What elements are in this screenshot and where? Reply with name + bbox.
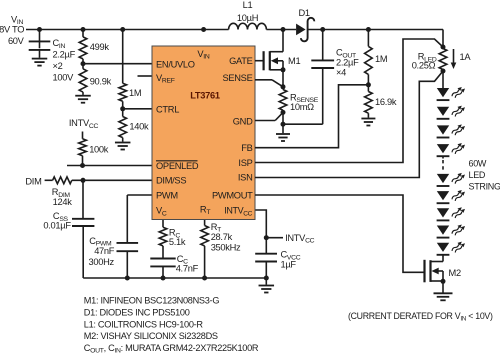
svg-text:350kHz: 350kHz <box>211 242 241 252</box>
svg-text:CTRL: CTRL <box>156 104 179 114</box>
svg-text:SENSE: SENSE <box>222 73 252 83</box>
svg-text:140k: 140k <box>129 121 149 131</box>
svg-text:499k: 499k <box>90 42 110 52</box>
svg-text:100V: 100V <box>53 72 75 82</box>
svg-text:L1: COILTRONICS HC9-100-R: L1: COILTRONICS HC9-100-R <box>84 319 204 329</box>
svg-text:124k: 124k <box>53 197 73 207</box>
svg-text:LED: LED <box>469 170 486 180</box>
svg-text:16.9k: 16.9k <box>375 97 397 107</box>
svg-text:(CURRENT DERATED FOR VIN < 10V: (CURRENT DERATED FOR VIN < 10V) <box>348 311 493 323</box>
svg-text:28.7k: 28.7k <box>211 232 233 242</box>
svg-text:300Hz: 300Hz <box>89 257 115 267</box>
svg-text:8V TO: 8V TO <box>0 24 24 34</box>
svg-text:PWM: PWM <box>156 190 178 200</box>
svg-text:L1: L1 <box>243 0 253 10</box>
svg-text:1M: 1M <box>129 88 141 98</box>
svg-text:100k: 100k <box>89 144 109 154</box>
svg-text:1A: 1A <box>460 52 472 62</box>
svg-text:10µH: 10µH <box>237 13 258 23</box>
svg-text:×4: ×4 <box>336 68 346 78</box>
svg-text:0.25Ω: 0.25Ω <box>412 61 436 71</box>
svg-text:ISN: ISN <box>238 173 253 183</box>
svg-text:M1: INFINEON BSC123N08NS3-G: M1: INFINEON BSC123N08NS3-G <box>84 296 220 306</box>
svg-text:90.9k: 90.9k <box>90 77 112 87</box>
svg-text:1µF: 1µF <box>281 260 297 270</box>
svg-text:M1: M1 <box>288 56 300 66</box>
svg-text:FB: FB <box>241 143 252 153</box>
svg-text:4.7nF: 4.7nF <box>176 263 199 273</box>
svg-text:GND: GND <box>233 116 253 126</box>
svg-text:OPENLED: OPENLED <box>156 161 199 171</box>
svg-text:10mΩ: 10mΩ <box>290 102 314 112</box>
svg-text:ISP: ISP <box>238 158 252 168</box>
svg-text:1M: 1M <box>375 54 387 64</box>
svg-text:×2: ×2 <box>53 61 63 71</box>
svg-text:M2: VISHAY SILICONIX Si2328DS: M2: VISHAY SILICONIX Si2328DS <box>84 331 218 341</box>
svg-text:0.01µF: 0.01µF <box>43 220 71 230</box>
svg-text:DIM/SS: DIM/SS <box>156 176 186 186</box>
svg-text:LT3761: LT3761 <box>190 91 220 101</box>
svg-text:M2: M2 <box>449 268 461 278</box>
svg-text:5.1k: 5.1k <box>169 237 186 247</box>
svg-text:DIM: DIM <box>25 176 41 186</box>
svg-text:COUT, CIN: MURATA GRM42-2X7R22: COUT, CIN: MURATA GRM42-2X7R225K100R <box>84 343 259 354</box>
svg-text:60W: 60W <box>469 158 487 168</box>
svg-text:STRING: STRING <box>469 181 500 191</box>
svg-text:60V: 60V <box>8 36 25 46</box>
svg-text:PWMOUT: PWMOUT <box>212 190 253 200</box>
svg-text:EN/UVLO: EN/UVLO <box>156 59 195 69</box>
svg-text:2.2µF: 2.2µF <box>336 58 359 68</box>
svg-text:2.2µF: 2.2µF <box>53 50 76 60</box>
svg-text:D1: D1 <box>299 8 310 18</box>
svg-text:47nF: 47nF <box>94 246 115 256</box>
svg-text:D1: DIODES INC PDS5100: D1: DIODES INC PDS5100 <box>84 308 190 318</box>
svg-text:GATE: GATE <box>229 56 253 66</box>
